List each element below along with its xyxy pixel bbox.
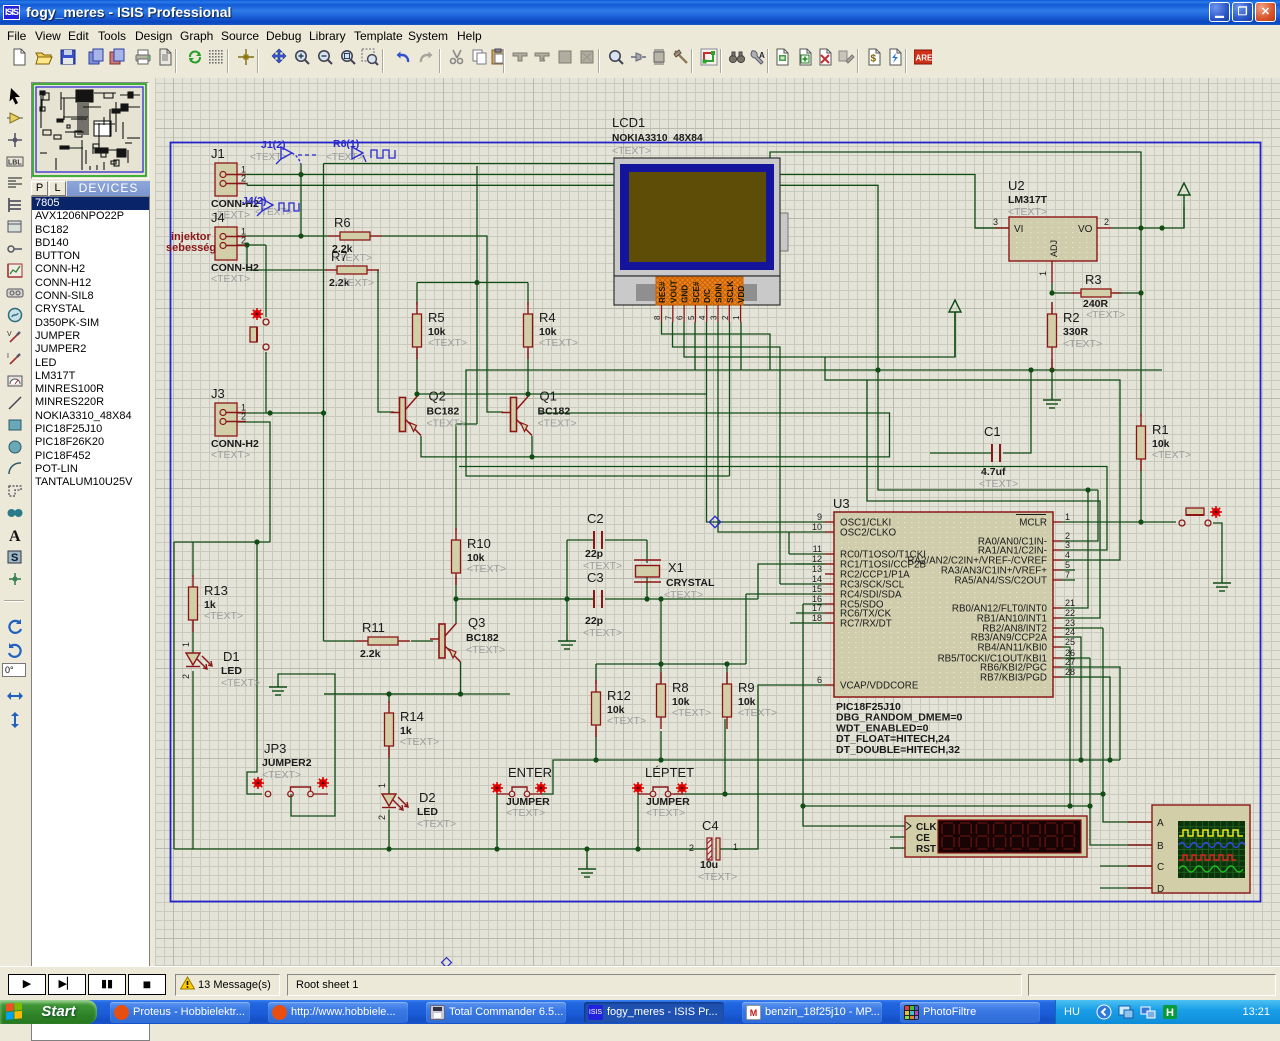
wire net pin27 drop xyxy=(1062,667,1120,760)
wire net ENTER left xyxy=(496,794,498,849)
svg-text:VOUT: VOUT xyxy=(669,280,678,303)
svg-text:D: D xyxy=(1157,884,1164,895)
svg-text:1: 1 xyxy=(1038,271,1048,276)
svg-text:R12: R12 xyxy=(607,688,631,703)
svg-text:2: 2 xyxy=(721,315,730,320)
svg-text:ADJ: ADJ xyxy=(1049,240,1059,257)
svg-text:J1: J1 xyxy=(211,146,225,161)
svg-text:330R: 330R xyxy=(1063,326,1089,338)
svg-text:D2: D2 xyxy=(419,790,436,805)
LED D1 xyxy=(186,653,212,669)
svg-text:SCLK: SCLK xyxy=(726,281,735,303)
svg-text:4: 4 xyxy=(1065,550,1070,560)
wire net pin28 drop xyxy=(1062,677,1110,760)
svg-text:SCE#: SCE# xyxy=(692,281,701,303)
svg-text:R8: R8 xyxy=(672,680,689,695)
node (blue diamond) xyxy=(709,516,720,527)
wire net JP3 mid to ground xyxy=(278,674,335,816)
svg-text:ARES: ARES xyxy=(916,54,933,63)
wire net LCD pin1 drop xyxy=(740,322,742,370)
svg-text:8: 8 xyxy=(653,315,662,320)
wire net R14 to D2 xyxy=(388,747,390,794)
resistor R8 xyxy=(657,672,712,729)
svg-text:C4: C4 xyxy=(702,818,719,833)
wire net R8 bottom xyxy=(660,731,662,760)
svg-text:<TEXT>: <TEXT> xyxy=(698,871,737,883)
svg-text:4.7uf: 4.7uf xyxy=(981,466,1006,478)
svg-text:25: 25 xyxy=(1065,637,1075,647)
capacitor C4 xyxy=(707,838,720,860)
svg-text:10: 10 xyxy=(812,522,822,532)
svg-text:27: 27 xyxy=(1065,657,1075,667)
svg-text:<TEXT>: <TEXT> xyxy=(664,589,703,601)
svg-text:CE: CE xyxy=(916,833,930,844)
svg-text:24: 24 xyxy=(1065,627,1075,637)
svg-text:<TEXT>: <TEXT> xyxy=(262,769,301,781)
svg-text:2.2k: 2.2k xyxy=(360,648,381,660)
wire net pin2 xyxy=(1062,490,1098,541)
svg-text:Q2: Q2 xyxy=(429,389,446,404)
svg-text:4: 4 xyxy=(698,315,707,320)
wire net y501 to U3.RB1 xyxy=(867,380,1100,618)
resistor R13 xyxy=(189,575,244,632)
connector J3 (CONN-H2) xyxy=(211,386,259,461)
svg-text:<TEXT>: <TEXT> xyxy=(335,277,374,289)
svg-text:<TEXT>: <TEXT> xyxy=(1086,309,1125,321)
svg-text:C1: C1 xyxy=(984,424,1001,439)
svg-text:sebesség: sebesség xyxy=(166,242,216,254)
svg-text:21: 21 xyxy=(1065,598,1075,608)
svg-text:<TEXT>: <TEXT> xyxy=(333,252,372,264)
svg-text:JP3: JP3 xyxy=(264,741,286,756)
svg-text:LBL: LBL xyxy=(8,160,22,167)
wire net y380 to U3.RA2 xyxy=(825,357,1120,560)
svg-text:CRYSTAL: CRYSTAL xyxy=(666,577,715,589)
svg-text:<TEXT>: <TEXT> xyxy=(506,807,545,819)
wire net pin26 xyxy=(1062,657,1090,659)
svg-text:3: 3 xyxy=(710,315,719,320)
svg-text:R1: R1 xyxy=(1152,422,1169,437)
svg-text:LM317T: LM317T xyxy=(1008,194,1048,206)
wire net R1 bottom xyxy=(1140,460,1142,522)
wire net J1.1 to J4.1 xyxy=(300,164,302,236)
ground (right) xyxy=(1213,576,1231,591)
wire net button to gnd xyxy=(1213,523,1222,576)
svg-text:1: 1 xyxy=(377,783,387,788)
wire net VIN top rail xyxy=(324,152,1142,228)
svg-text:<TEXT>: <TEXT> xyxy=(428,337,467,349)
resistor R12 xyxy=(592,680,647,737)
svg-text:RB4/AN11/KBI0: RB4/AN11/KBI0 xyxy=(977,643,1047,654)
svg-text:<TEXT>: <TEXT> xyxy=(400,736,439,748)
svg-text:R11: R11 xyxy=(362,620,385,635)
resistor R7 xyxy=(325,249,379,289)
wire net scope D stub xyxy=(1100,887,1152,889)
jumper LÉPTET (JUMPER) xyxy=(632,782,690,819)
svg-text:17: 17 xyxy=(812,603,822,613)
wire net D2 to bottom rail xyxy=(388,810,390,850)
svg-text:<TEXT>: <TEXT> xyxy=(583,627,622,639)
svg-text:LCD1: LCD1 xyxy=(612,115,645,130)
svg-text:9: 9 xyxy=(817,512,822,522)
svg-text:R3: R3 xyxy=(1085,272,1102,287)
wire net R9 bottom xyxy=(724,719,726,794)
transistor Q2 (BC182) xyxy=(391,397,422,436)
svg-text:2: 2 xyxy=(241,412,246,422)
svg-text:10u: 10u xyxy=(700,859,718,871)
svg-text:13: 13 xyxy=(812,564,822,574)
svg-text:<TEXT>: <TEXT> xyxy=(539,337,578,349)
wire net RA3 tail xyxy=(1062,569,1075,571)
wire net R9 top xyxy=(726,664,728,684)
svg-text:I: I xyxy=(7,353,9,360)
svg-text:$: $ xyxy=(871,54,877,65)
svg-text:18: 18 xyxy=(812,613,822,623)
wire net J4.2 xyxy=(237,244,266,246)
wire net R2 gnd stub xyxy=(1051,370,1053,393)
svg-text:VO: VO xyxy=(1078,224,1093,235)
svg-text:R9: R9 xyxy=(738,680,755,695)
wire net R2 bottom xyxy=(1051,359,1053,370)
wire net rail y664 ext xyxy=(727,663,746,665)
svg-text:<TEXT>: <TEXT> xyxy=(538,418,577,430)
wire net gnd stub bottom xyxy=(586,849,588,862)
wire net R13 to D1 xyxy=(192,621,194,653)
svg-text:<TEXT>: <TEXT> xyxy=(1008,206,1047,218)
wire net RC0 drop xyxy=(788,532,790,554)
wire net scope C stub xyxy=(1100,865,1152,867)
wire net R12 bottom xyxy=(595,727,597,760)
svg-text:D1: D1 xyxy=(223,649,240,664)
svg-text:2: 2 xyxy=(181,674,191,679)
wire net rail y370 xyxy=(466,370,1162,476)
svg-text:14: 14 xyxy=(812,574,822,584)
svg-text:GND: GND xyxy=(681,285,690,303)
wire net U3.RC0 stub xyxy=(789,553,825,555)
wire net R5 to Q2 collector xyxy=(416,350,418,397)
svg-text:R5: R5 xyxy=(428,310,445,325)
svg-text:V: V xyxy=(7,331,12,338)
svg-text:<TEXT>: <TEXT> xyxy=(326,152,363,163)
wire net rail y806 xyxy=(803,805,1090,807)
wire net J3.2 drop xyxy=(237,422,270,542)
svg-text:U2: U2 xyxy=(1008,178,1025,193)
wire net Q3 emitter xyxy=(324,662,461,694)
wire net LCD.DC to U3.OSC1 xyxy=(707,322,826,522)
svg-text:1: 1 xyxy=(733,842,738,852)
wire net y599 left xyxy=(456,598,594,600)
wire net U3.RC6 stub xyxy=(796,612,825,614)
wire net R5R4 top rail xyxy=(417,282,528,284)
wire net U3.RC2 stub xyxy=(780,583,825,585)
wire net U3.RB2 to scope A xyxy=(1103,628,1152,822)
wire net R1 top riser xyxy=(1140,228,1142,416)
svg-text:<TEXT>: <TEXT> xyxy=(646,807,685,819)
wire net U2.VI stub xyxy=(975,227,1009,229)
svg-text:H: H xyxy=(1166,1007,1174,1019)
svg-text:12: 12 xyxy=(812,554,822,564)
svg-text:VCAP/VDDCORE: VCAP/VDDCORE xyxy=(840,681,919,692)
svg-text:J1(2): J1(2) xyxy=(261,139,286,151)
svg-text:<TEXT>: <TEXT> xyxy=(250,152,287,163)
wire net R4 top xyxy=(527,283,529,306)
svg-text:D/C: D/C xyxy=(703,289,712,303)
transistor Q1 (BC182) xyxy=(502,397,533,436)
wire net left rail xyxy=(173,542,175,849)
wire net gen riser x323 xyxy=(323,164,325,642)
wire net D1 to bottom rail xyxy=(192,671,194,849)
wire net R7 out to Q2 base xyxy=(378,270,394,412)
svg-text:1: 1 xyxy=(732,315,741,320)
svg-text:7: 7 xyxy=(1065,570,1070,580)
svg-text:<TEXT>: <TEXT> xyxy=(467,563,506,575)
svg-text:1: 1 xyxy=(181,642,191,647)
capacitor C3 xyxy=(594,590,602,608)
wire net X1 to y664 xyxy=(660,599,662,664)
wire net R5 top xyxy=(416,283,418,306)
wire net rail y466 to U3.RA1 xyxy=(459,467,1107,551)
svg-text:R10: R10 xyxy=(467,536,491,551)
wire net LCD.GND to VCC arrow xyxy=(684,312,955,357)
svg-text:SDIN: SDIN xyxy=(715,283,724,303)
svg-text:RC7/RX/DT: RC7/RX/DT xyxy=(840,619,892,630)
wire net R6 out to Q1 base xyxy=(382,236,503,412)
origin marker (blue diamond, bottom) xyxy=(442,958,452,968)
wire net pin21 xyxy=(1062,490,1088,608)
wire net R12 top xyxy=(595,664,597,684)
resistor R14 xyxy=(385,701,440,758)
svg-text:C3: C3 xyxy=(587,570,604,585)
wire net U3.RC4 stub xyxy=(746,593,825,595)
svg-text:J4: J4 xyxy=(211,210,225,225)
wire net R2 top xyxy=(1051,302,1053,326)
svg-text:2: 2 xyxy=(1104,217,1109,227)
svg-text:BC182: BC182 xyxy=(427,406,460,418)
wire net J1.1 to U2.VI xyxy=(237,175,995,229)
button SW2 (top right) xyxy=(1210,506,1222,518)
wire net RST stub xyxy=(890,847,905,849)
svg-text:BC182: BC182 xyxy=(538,406,571,418)
svg-text:U3: U3 xyxy=(833,496,850,511)
wire net J4.2 to R7 xyxy=(247,245,325,270)
connector J1 (CONN-H2) xyxy=(211,146,259,221)
svg-text:22p: 22p xyxy=(585,548,603,560)
wire net U3.RC5 stub xyxy=(803,603,825,605)
svg-text:1: 1 xyxy=(1065,512,1070,522)
ground xyxy=(578,862,596,877)
svg-text:<TEXT>: <TEXT> xyxy=(211,449,250,461)
wire net LCD.SCLK to U3.OSC2 xyxy=(718,322,825,532)
wire net U3.RB5 to scope B xyxy=(1090,658,1152,845)
wire net X1 bottom xyxy=(646,577,648,599)
wire net R4 to Q1 collector xyxy=(527,350,529,397)
wire net R14 top xyxy=(388,694,390,703)
wire net LCD.VDD riser xyxy=(729,322,731,476)
svg-text:OSC2/CLKO: OSC2/CLKO xyxy=(840,528,896,539)
wire net U2.VO out xyxy=(1112,207,1184,228)
microcontroller U3 (PIC18F25J10) xyxy=(812,496,1075,756)
oscilloscope xyxy=(1128,805,1250,895)
svg-text:DT_DOUBLE=HITECH,32: DT_DOUBLE=HITECH,32 xyxy=(836,744,960,756)
wire net button SW1 to J3.1 xyxy=(265,352,267,413)
wire net C1 right xyxy=(1003,370,1031,453)
wire net LEPTET right rail y794 xyxy=(674,793,1103,795)
connector J4 (CONN-H2) xyxy=(211,210,259,285)
svg-text:<TEXT>: <TEXT> xyxy=(612,145,651,157)
svg-text:RB7/KBI3/PGD: RB7/KBI3/PGD xyxy=(980,673,1047,684)
resistor R10 xyxy=(452,528,507,585)
wire net C4.1 to U3.VCAP xyxy=(719,685,825,849)
capacitor C1 xyxy=(992,444,1000,462)
wire net H542 xyxy=(174,541,270,543)
svg-text:CLK: CLK xyxy=(916,822,937,833)
resistor R2 xyxy=(1048,302,1057,370)
svg-text:A: A xyxy=(759,51,765,60)
wire net y599 right xyxy=(605,598,758,600)
wire net MCLR to button xyxy=(1062,521,1176,523)
svg-text:3: 3 xyxy=(993,217,998,227)
svg-text:MCLR: MCLR xyxy=(1019,518,1047,529)
wire net to U3.RC3 xyxy=(758,564,825,599)
svg-text:<TEXT>: <TEXT> xyxy=(204,610,243,622)
resistor R1 xyxy=(1137,414,1192,471)
wire net J4.1 to R6 xyxy=(237,235,328,237)
wire net C4.2 xyxy=(700,848,707,850)
resistor R9 xyxy=(723,672,778,729)
svg-text:RST: RST xyxy=(916,844,936,855)
svg-text:Q3: Q3 xyxy=(468,615,485,630)
power terminal VCC (mid) xyxy=(949,300,961,357)
wire net RC5 to CLK xyxy=(803,604,905,826)
svg-text:C: C xyxy=(1157,862,1164,873)
wire net pin23 xyxy=(1062,627,1103,629)
svg-text:<TEXT>: <TEXT> xyxy=(738,707,777,719)
7-segment counter display xyxy=(905,816,1087,857)
wire net button SW1 top xyxy=(265,245,267,317)
wire net power drop right xyxy=(954,312,956,357)
svg-text:LÉPTET: LÉPTET xyxy=(645,765,694,780)
svg-text:A: A xyxy=(9,528,21,544)
svg-text:R13: R13 xyxy=(204,583,228,598)
jumper ENTER (JUMPER) xyxy=(491,782,550,819)
wire net J3.1 xyxy=(237,412,324,414)
wire net pin25 drop xyxy=(1062,647,1070,806)
resistor R4 xyxy=(524,302,579,359)
svg-text:22: 22 xyxy=(1065,608,1075,618)
svg-text:<TEXT>: <TEXT> xyxy=(417,818,456,830)
wire net CE stub xyxy=(890,836,905,838)
svg-text:22p: 22p xyxy=(585,615,603,627)
svg-text:6: 6 xyxy=(817,675,822,685)
wire net J3.1 to R11 xyxy=(324,640,357,642)
svg-text:<TEXT>: <TEXT> xyxy=(672,707,711,719)
svg-text:5: 5 xyxy=(687,315,696,320)
wire net C2 right xyxy=(605,539,647,541)
power terminal VCC (right) xyxy=(1178,183,1190,228)
wire net rail y664 xyxy=(596,663,727,665)
wire net C3 left xyxy=(567,598,594,600)
svg-text:2: 2 xyxy=(377,815,387,820)
resistor R3 xyxy=(1071,289,1121,297)
wire net LCD.VOUT riser xyxy=(673,322,781,584)
svg-text:LED: LED xyxy=(221,665,242,677)
svg-text:2: 2 xyxy=(689,843,694,853)
wire net U2.ADJ xyxy=(1051,283,1053,293)
wire net R11 to Q3 xyxy=(411,640,433,642)
resistor R5 xyxy=(413,302,468,359)
resistor R6 xyxy=(328,215,382,255)
svg-text:<TEXT>: <TEXT> xyxy=(211,273,250,285)
wire net U3.RC1 stub xyxy=(795,563,825,565)
svg-text:R14: R14 xyxy=(400,709,424,724)
svg-text:15: 15 xyxy=(812,584,822,594)
svg-text:A: A xyxy=(1157,818,1164,829)
svg-text:<TEXT>: <TEXT> xyxy=(466,644,505,656)
wire net JP3 left feed xyxy=(247,542,262,794)
svg-text:VDD: VDD xyxy=(737,286,746,303)
wire net C2C3 gnd riser xyxy=(566,540,568,634)
wire net ADJ to R3 xyxy=(1052,292,1071,294)
wire net LEPTET left xyxy=(637,794,639,849)
svg-text:LED: LED xyxy=(417,806,438,818)
wire net emitter rail to y413 rail xyxy=(421,413,890,457)
svg-text:<TEXT>: <TEXT> xyxy=(221,677,260,689)
svg-text:RA5/AN4/SS/C2OUT: RA5/AN4/SS/C2OUT xyxy=(954,576,1047,587)
svg-text:11: 11 xyxy=(813,544,822,554)
svg-text:VI: VI xyxy=(1014,224,1023,235)
wire net J1.2 jog xyxy=(237,184,247,186)
transistor Q3 (BC182) xyxy=(430,623,461,662)
sheet border (blue) xyxy=(171,143,1261,902)
wire net R13 top xyxy=(192,542,194,577)
wire net RA5 tail xyxy=(1062,579,1075,581)
wire net LCD.SCE drop xyxy=(694,322,696,370)
svg-text:R4: R4 xyxy=(539,310,556,325)
svg-text:C2: C2 xyxy=(587,511,604,526)
ground xyxy=(558,634,576,649)
wire net X1 top xyxy=(646,540,648,563)
svg-text:X1: X1 xyxy=(668,560,684,575)
wire net R5R4 riser xyxy=(476,166,478,424)
crystal X1 xyxy=(634,560,661,582)
svg-text:BC182: BC182 xyxy=(466,632,499,644)
button SW1 (vertical) xyxy=(251,308,263,320)
svg-text:ENTER: ENTER xyxy=(508,765,552,780)
svg-text:6: 6 xyxy=(676,315,685,320)
svg-text:<TEXT>: <TEXT> xyxy=(427,418,466,430)
ground (under U2) xyxy=(1043,393,1061,408)
wire net collector rail y394 xyxy=(417,393,707,395)
svg-text:5: 5 xyxy=(1065,560,1070,570)
wire net C1 left xyxy=(930,452,992,454)
capacitor C2 xyxy=(594,531,602,549)
svg-text:<TEXT>: <TEXT> xyxy=(1063,338,1102,350)
wire net LCD.RES riser xyxy=(662,322,771,370)
svg-text:Q1: Q1 xyxy=(540,389,557,404)
svg-text:JUMPER2: JUMPER2 xyxy=(262,757,312,769)
svg-text:RES#: RES# xyxy=(658,281,667,303)
wire net Q1 emitter xyxy=(531,436,533,457)
svg-text:2: 2 xyxy=(241,236,246,246)
svg-text:R2: R2 xyxy=(1063,310,1080,325)
wire net ENTER right rail y760 xyxy=(542,760,1120,794)
wire net C2 left xyxy=(567,539,594,541)
svg-text:28: 28 xyxy=(1065,667,1075,677)
svg-text:S: S xyxy=(11,552,18,564)
svg-text:2: 2 xyxy=(241,174,246,184)
wire net pin24 drop xyxy=(1062,637,1081,760)
wire net bottom rail xyxy=(174,848,700,850)
